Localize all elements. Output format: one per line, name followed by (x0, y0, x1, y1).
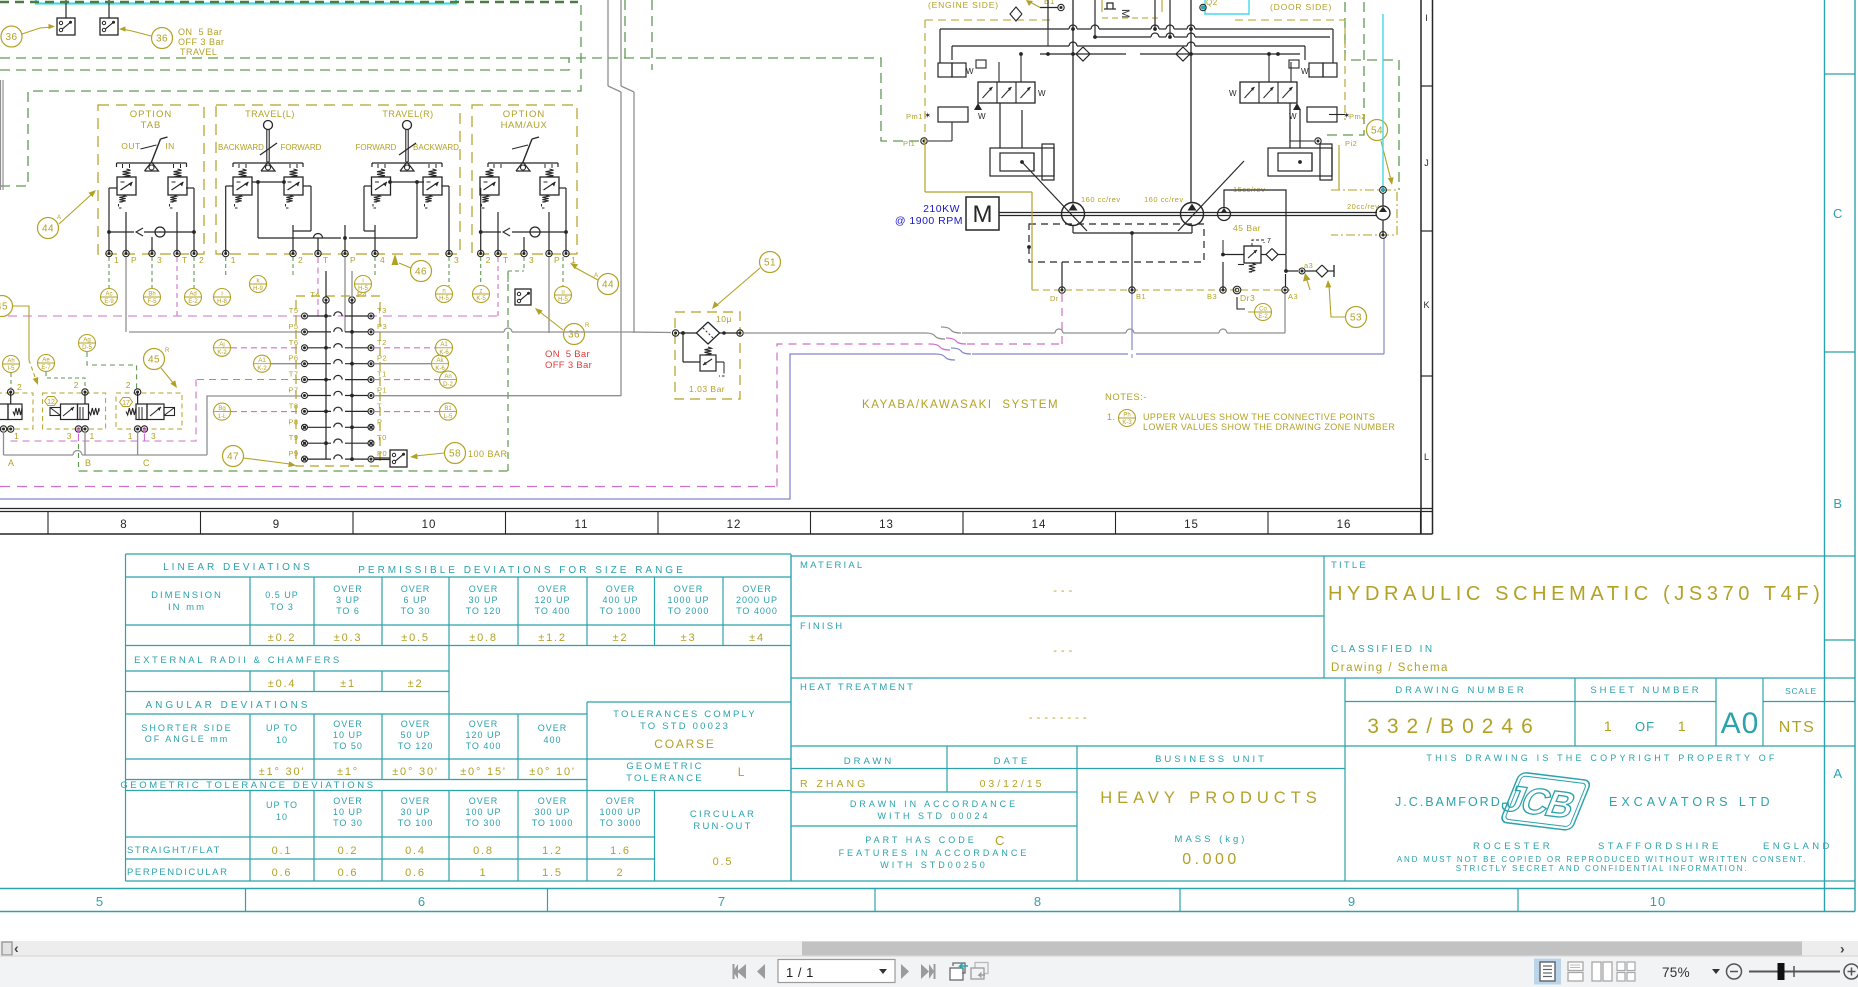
svg-text:B1: B1 (1136, 292, 1146, 301)
svg-text:THIS DRAWING IS THE COPYRIGHT: THIS DRAWING IS THE COPYRIGHT PROPERTY O… (1426, 753, 1777, 763)
svg-text:10μ: 10μ (716, 314, 732, 324)
ref circle Bg I-L (214, 403, 231, 420)
svg-text:10: 10 (276, 735, 288, 745)
balloon 53 (1325, 280, 1366, 328)
svg-text:0.4: 0.4 (405, 845, 426, 857)
svg-text:FORWARD: FORWARD (356, 143, 397, 152)
svg-text:OFF 3 Bar: OFF 3 Bar (178, 37, 225, 47)
svg-text:TO 4000: TO 4000 (736, 606, 778, 616)
label Pi1 (903, 139, 915, 148)
balloon 45 cut (0, 296, 38, 386)
ref circle n H-5 (436, 286, 453, 303)
svg-text:L-5: L-5 (444, 414, 453, 420)
svg-text:0.1: 0.1 (272, 845, 293, 857)
ref circle i H-5 (355, 276, 372, 293)
svg-text:1.6: 1.6 (610, 845, 631, 857)
svg-text:P6: P6 (288, 354, 298, 363)
svg-text:±1° 30': ±1° 30' (259, 766, 306, 778)
svg-text:2: 2 (17, 382, 22, 392)
svg-text:I-5: I-5 (7, 366, 15, 372)
svg-text:53: 53 (1350, 313, 1362, 324)
svg-text:H-8: H-8 (217, 299, 227, 305)
svg-text:a3: a3 (1304, 261, 1313, 270)
svg-text:ROCESTER: ROCESTER (1473, 841, 1553, 852)
wire magenta break (930, 338, 966, 350)
svg-text:HYDRAULIC SCHEMATIC (JS370 T4F: HYDRAULIC SCHEMATIC (JS370 T4F) (1328, 583, 1824, 605)
svg-text:F-5: F-5 (148, 299, 158, 305)
svg-text:i: i (362, 278, 363, 284)
wire magenta T-row y316 (8, 315, 498, 317)
manifold connector ladder T/P (288, 271, 387, 466)
ref circle Ac E-9 (101, 289, 118, 306)
svg-text:TO 400: TO 400 (535, 606, 571, 616)
svg-text:±1: ±1 (340, 678, 356, 690)
svg-text:K-2: K-2 (257, 366, 267, 372)
svg-text:±0° 15': ±0° 15' (460, 766, 507, 778)
svg-text:K-6: K-6 (435, 366, 445, 372)
balloon 51 (712, 252, 781, 310)
svg-text:P: P (554, 255, 560, 265)
solenoid valve B (43, 380, 106, 441)
svg-text:OVER: OVER (333, 719, 363, 729)
svg-text:P8: P8 (288, 417, 298, 426)
svg-text:±0.8: ±0.8 (469, 632, 498, 644)
wire stubs TAB ports down (109, 257, 194, 332)
wire gray vertical x621-634 (621, 0, 634, 333)
svg-text:1000 UP: 1000 UP (599, 807, 641, 817)
svg-text:TO STD 00023: TO STD 00023 (640, 721, 730, 732)
svg-text:A: A (8, 458, 15, 468)
regulator right (1229, 60, 1351, 122)
svg-text:400: 400 (543, 735, 561, 745)
wire magenta T8 row (231, 411, 439, 413)
svg-text:TO 2000: TO 2000 (668, 606, 710, 616)
svg-text:TO 120: TO 120 (466, 606, 502, 616)
svg-text:NOTES:-: NOTES:- (1105, 392, 1147, 403)
pressure switch 36R (515, 289, 531, 305)
label KAYABA (862, 399, 1059, 411)
relief valve 45 Bar (1221, 223, 1298, 287)
svg-text:Pm1: Pm1 (906, 112, 923, 121)
svg-text:R: R (585, 323, 590, 329)
svg-text:M: M (1119, 9, 1131, 18)
wire Pi1 link (928, 122, 952, 141)
svg-text:OF: OF (1635, 719, 1655, 734)
label 160cc 1 (1081, 195, 1121, 204)
wire gray pair at left edge (1, 80, 4, 190)
outer frame bottom zone row (0, 889, 1855, 912)
svg-text:Q2: Q2 (1206, 0, 1218, 7)
svg-text:OVER: OVER (538, 723, 568, 733)
svg-text:DATE: DATE (994, 756, 1031, 767)
svg-text:Pi1: Pi1 (903, 139, 915, 148)
svg-text:TO 100: TO 100 (398, 818, 434, 828)
svg-text:OVER: OVER (469, 719, 499, 729)
svg-text:OVER: OVER (333, 584, 363, 594)
svg-text:OVER: OVER (469, 796, 499, 806)
wire magenta riser x777 (777, 294, 1062, 487)
svg-text:P: P (350, 255, 356, 265)
svg-text:9: 9 (273, 519, 280, 531)
svg-text:T8: T8 (289, 401, 299, 410)
svg-text:6 UP: 6 UP (403, 595, 427, 605)
svg-text:1: 1 (480, 867, 488, 879)
svg-text:AND MUST NOT BE COPIED OR REPR: AND MUST NOT BE COPIED OR REPRODUCED WIT… (1397, 855, 1807, 864)
svg-text:OVER: OVER (742, 584, 772, 594)
svg-text:H-5: H-5 (558, 297, 568, 303)
svg-text:LINEAR DEVIATIONS: LINEAR DEVIATIONS (163, 562, 313, 573)
svg-text:6: 6 (418, 894, 426, 909)
svg-text:1.5: 1.5 (542, 867, 563, 879)
svg-text:D-5: D-5 (82, 345, 92, 351)
svg-text:3: 3 (67, 431, 72, 441)
wire blue long bottom (0, 354, 1384, 499)
svg-text:±2: ±2 (613, 632, 629, 644)
svg-text:±0° 30': ±0° 30' (392, 766, 439, 778)
svg-text:ENGLAND: ENGLAND (1763, 841, 1833, 852)
svg-text:300 UP: 300 UP (534, 807, 570, 817)
svg-text:OVER: OVER (674, 584, 704, 594)
svg-text:T: T (323, 255, 329, 265)
port Pi1 (921, 138, 927, 144)
wire P0 to switch (374, 459, 390, 461)
svg-text:ON 5 Bar: ON 5 Bar (545, 349, 590, 360)
svg-text:Ae: Ae (42, 357, 50, 363)
svg-text:±1°: ±1° (337, 766, 359, 778)
balloon 36 R (535, 308, 590, 345)
svg-text:(ENGINE SIDE): (ENGINE SIDE) (928, 0, 999, 10)
svg-text:MASS (kg): MASS (kg) (1175, 834, 1248, 845)
svg-text:10 UP: 10 UP (333, 807, 363, 817)
svg-text:P: P (377, 417, 383, 426)
wire green dashed y70 (0, 0, 652, 70)
svg-text:L: L (1424, 452, 1430, 462)
svg-text:n: n (442, 288, 445, 294)
svg-text:W: W (1229, 89, 1237, 98)
svg-text:R ZHANG: R ZHANG (800, 778, 868, 790)
motor M (966, 197, 999, 230)
wire pump drains (1062, 226, 1223, 290)
svg-text:W: W (1038, 89, 1046, 98)
svg-text:WITH STD 00024: WITH STD 00024 (877, 811, 990, 821)
svg-text:T6: T6 (289, 338, 299, 347)
ref circle z K-5 (473, 286, 490, 303)
svg-text:OVER: OVER (401, 796, 431, 806)
wire green Ag to valve C (87, 352, 137, 389)
svg-text:P7: P7 (288, 386, 298, 395)
ref circle Co E-2 (1237, 297, 1272, 321)
svg-text:T1: T1 (377, 370, 387, 379)
svg-text:TO 3000: TO 3000 (600, 818, 642, 828)
svg-text:7: 7 (718, 894, 726, 909)
svg-text:P1: P1 (377, 386, 387, 395)
svg-text:8: 8 (120, 519, 127, 531)
svg-text:T9: T9 (289, 433, 299, 442)
pilot valve group TRAVEL L/R (216, 105, 460, 265)
balloon 44 left (38, 190, 97, 239)
svg-text:DRAWN: DRAWN (844, 756, 895, 767)
svg-text:7: 7 (1267, 238, 1271, 245)
wire 15cc to relief (1224, 190, 1286, 254)
balloon 36 second + label (119, 26, 225, 57)
ref circle An D-2 (440, 371, 457, 388)
svg-text:8: 8 (1034, 894, 1042, 909)
svg-text:SCALE: SCALE (1785, 686, 1817, 696)
svg-text:1: 1 (231, 255, 236, 265)
svg-text:12: 12 (727, 519, 742, 531)
svg-text:An: An (444, 374, 451, 380)
svg-text:03/12/15: 03/12/15 (980, 778, 1045, 790)
svg-text:16: 16 (1337, 519, 1352, 531)
pump P2 160cc (1181, 203, 1204, 226)
svg-text:T0: T0 (377, 433, 387, 442)
svg-text:51: 51 (764, 258, 776, 269)
ref circle u H-5 (555, 287, 572, 304)
svg-text:K: K (1423, 300, 1430, 310)
balloon 36 left (1, 24, 55, 47)
svg-text:T4: T4 (310, 290, 320, 299)
svg-text:›: › (1840, 941, 1845, 957)
svg-text:OVER: OVER (333, 796, 363, 806)
outer form frame right border (1825, 0, 1856, 912)
svg-text:WITH STD00250: WITH STD00250 (880, 860, 988, 870)
balloon 54 (1367, 120, 1394, 186)
svg-text:2: 2 (74, 380, 79, 390)
svg-text:IN mm: IN mm (168, 602, 206, 613)
balloon 46 (392, 254, 432, 282)
svg-text:Pm2: Pm2 (1349, 112, 1366, 121)
wire gray vertical x608-621 (608, 0, 621, 396)
pump P1 160cc (1062, 203, 1085, 226)
svg-text:CIRCULAR: CIRCULAR (690, 809, 756, 820)
svg-text:CLASSIFIED IN: CLASSIFIED IN (1331, 644, 1435, 655)
svg-text:R: R (165, 348, 170, 354)
svg-text:OPTION: OPTION (130, 109, 172, 120)
wire Pi2 link (1290, 122, 1314, 141)
svg-text:10: 10 (1650, 894, 1666, 909)
svg-text:BACKWARD: BACKWARD (218, 143, 264, 152)
port a3 check (1299, 261, 1334, 290)
svg-text:W: W (978, 112, 986, 121)
filter 10u with bypass relief (672, 312, 743, 399)
wire stubs HAM ports down (481, 257, 563, 333)
ref circle Ad E-2 (185, 289, 202, 306)
port G1 (1010, 0, 1064, 21)
servo piston right (1268, 144, 1332, 180)
svg-text:2: 2 (199, 255, 204, 265)
svg-text:1.03 Bar: 1.03 Bar (689, 384, 725, 394)
svg-text:332/B0246: 332/B0246 (1367, 715, 1541, 738)
svg-text:E-2: E-2 (188, 299, 198, 305)
svg-text:Ah: Ah (7, 358, 14, 364)
svg-text:Dr3: Dr3 (1240, 293, 1255, 303)
wire olive pump bottom (925, 138, 1339, 290)
ref circle B1 L-5 (440, 403, 457, 420)
svg-text:FEATURES IN ACCORDANCE: FEATURES IN ACCORDANCE (839, 848, 1030, 858)
svg-text:3: 3 (157, 255, 162, 265)
svg-text:Ag: Ag (83, 337, 90, 343)
ref circle Ae E-7 (38, 355, 86, 389)
inner frame bottom zone row (0, 509, 1433, 535)
pressure switch S1 (top left) (57, 0, 75, 35)
svg-text:H-9: H-9 (253, 286, 263, 292)
svg-text:TOLERANCE: TOLERANCE (626, 773, 704, 784)
pilot valve group OPTION TAB (98, 105, 204, 265)
wire blue break (935, 348, 971, 360)
svg-text:MATERIAL: MATERIAL (800, 560, 864, 571)
svg-text:100 BAR: 100 BAR (468, 449, 508, 459)
svg-text:P5: P5 (288, 322, 298, 331)
title block text (800, 560, 1833, 873)
svg-text:FINISH: FINISH (800, 621, 844, 632)
svg-text:1: 1 (114, 255, 119, 265)
svg-text:HEAVY PRODUCTS: HEAVY PRODUCTS (1100, 789, 1322, 807)
svg-text:1-L: 1-L (218, 414, 227, 420)
svg-text:3: 3 (151, 431, 156, 441)
pump group enclosures (925, 0, 1345, 138)
svg-text:T: T (503, 255, 509, 265)
svg-text:DIMENSION: DIMENSION (151, 590, 223, 601)
svg-text:45 Bar: 45 Bar (1233, 223, 1261, 233)
wire magenta long y486 (0, 486, 777, 488)
ref circle Ah I-5 (3, 356, 20, 389)
inner drawing frame right border (1421, 0, 1433, 534)
svg-text:KAYABA/KAWASAKI SYSTEM: KAYABA/KAWASAKI SYSTEM (862, 399, 1059, 411)
svg-text:1: 1 (90, 431, 95, 441)
svg-text:TO 1000: TO 1000 (600, 606, 642, 616)
svg-text:@ 1900 RPM: @ 1900 RPM (895, 215, 963, 227)
svg-text:100 UP: 100 UP (465, 807, 501, 817)
svg-text:±0.3: ±0.3 (334, 632, 363, 644)
svg-text:OVER: OVER (606, 584, 636, 594)
svg-text:1: 1 (1678, 718, 1686, 734)
balloon 44 right (570, 263, 619, 295)
svg-text:Aj: Aj (219, 342, 224, 348)
svg-text:160 cc/rev: 160 cc/rev (1081, 195, 1121, 204)
label Pi2 (1345, 139, 1357, 148)
svg-text:B: B (1833, 496, 1842, 511)
svg-text:Ph: Ph (1123, 412, 1130, 418)
wire gray P1 row (374, 395, 621, 397)
svg-text:OVER: OVER (401, 584, 431, 594)
svg-text:10: 10 (276, 812, 288, 822)
svg-text:44: 44 (42, 224, 54, 235)
svg-text:K-2: K-2 (217, 350, 227, 356)
svg-text:D-2: D-2 (443, 382, 453, 388)
wire green dashed y58 (0, 58, 920, 141)
svg-text:OVER: OVER (469, 584, 499, 594)
svg-text:Drawing / Schema: Drawing / Schema (1331, 662, 1449, 674)
label DOOR SIDE (1270, 2, 1332, 12)
wire green dashed Pi2 link (1326, 2, 1364, 135)
svg-text:NTS: NTS (1779, 719, 1816, 736)
svg-text:A3: A3 (1288, 292, 1298, 301)
tolerance table text (120, 562, 778, 879)
svg-text:2: 2 (126, 380, 131, 390)
svg-text:u: u (561, 289, 564, 295)
svg-text:LOWER VALUES SHOW THE DRAWING: LOWER VALUES SHOW THE DRAWING ZONE NUMBE… (1143, 422, 1395, 432)
pressure switch S2 (top left) (100, 0, 118, 35)
svg-text:T3: T3 (377, 306, 387, 315)
wire green to pressure switch 36R (508, 271, 524, 289)
label ON OFF red (545, 349, 592, 371)
svg-text:TO 300: TO 300 (466, 818, 502, 828)
ref circle Ag D-5 (79, 335, 96, 352)
svg-text:W: W (966, 67, 974, 76)
ports bottom row (1032, 286, 1298, 303)
svg-text:±4: ±4 (749, 632, 765, 644)
label NOTES (1105, 392, 1147, 403)
svg-text:T7: T7 (289, 370, 299, 379)
label 160cc 2 (1144, 195, 1184, 204)
svg-text:30 UP: 30 UP (400, 807, 430, 817)
svg-text:P4: P4 (357, 290, 367, 299)
svg-text:0.5 UP: 0.5 UP (265, 590, 299, 600)
svg-text:A: A (57, 215, 62, 221)
svg-text:2: 2 (298, 255, 303, 265)
svg-text:- - -: - - - (1053, 645, 1073, 657)
wire magenta valves loop (10, 380, 300, 442)
svg-text:0.6: 0.6 (272, 867, 293, 879)
svg-text:±0.5: ±0.5 (401, 632, 430, 644)
svg-text:K-3: K-3 (1122, 420, 1132, 426)
svg-text:Dr: Dr (1050, 294, 1059, 303)
svg-text:i: i (221, 291, 222, 297)
svg-text:TRAVEL: TRAVEL (180, 47, 217, 57)
svg-text:L: L (738, 765, 746, 779)
svg-text:15: 15 (1184, 519, 1199, 531)
svg-text:46: 46 (415, 267, 427, 278)
svg-text:1 / 1: 1 / 1 (786, 965, 814, 980)
svg-text:20cc/rev: 20cc/rev (1347, 202, 1379, 211)
wire green dashed top thick (0, 1, 578, 4)
cyan highlight box (cut at top) (36, 0, 456, 4)
svg-text:E-9: E-9 (104, 299, 114, 305)
svg-text:Bg: Bg (218, 406, 225, 412)
wire P0 link (373, 459, 375, 461)
port Q2 circle (1200, 4, 1206, 10)
svg-text:A: A (1833, 766, 1842, 781)
svg-text:J: J (1424, 158, 1429, 168)
JCB logo (1496, 770, 1591, 833)
svg-text:OVER: OVER (606, 796, 636, 806)
svg-text:K-5: K-5 (476, 296, 486, 302)
pump case dashed box (1027, 224, 1204, 262)
label ENGINE SIDE (928, 0, 999, 10)
svg-text:TO 1000: TO 1000 (532, 818, 574, 828)
svg-text:P: P (131, 255, 137, 265)
svg-text:T2: T2 (377, 338, 387, 347)
svg-text:TO 30: TO 30 (333, 818, 363, 828)
svg-text:STRAIGHT/FLAT: STRAIGHT/FLAT (127, 845, 221, 856)
svg-text:0.5: 0.5 (713, 856, 734, 868)
balloon 47 (223, 446, 297, 468)
svg-text:45: 45 (148, 355, 160, 366)
svg-text:TO 6: TO 6 (336, 606, 360, 616)
tolerance table grid (126, 554, 792, 881)
svg-text:TOLERANCES COMPLY: TOLERANCES COMPLY (613, 709, 757, 720)
svg-text:12: 12 (47, 399, 55, 406)
svg-text:47: 47 (227, 452, 239, 463)
svg-text:- - -: - - - (1053, 585, 1073, 597)
svg-text:GEOMETRIC TOLERANCE DEVIATIONS: GEOMETRIC TOLERANCE DEVIATIONS (120, 780, 375, 791)
svg-text:HAM/AUX: HAM/AUX (501, 120, 548, 131)
svg-text:1.2: 1.2 (542, 845, 563, 857)
svg-text:1000 UP: 1000 UP (667, 595, 709, 605)
pilot valve group OPTION HAM/AUX (472, 105, 577, 265)
svg-text:PERMISSIBLE DEVIATIONS FOR SIZ: PERMISSIBLE DEVIATIONS FOR SIZE RANGE (358, 565, 686, 576)
svg-text:ANGULAR DEVIATIONS: ANGULAR DEVIATIONS (146, 700, 311, 711)
